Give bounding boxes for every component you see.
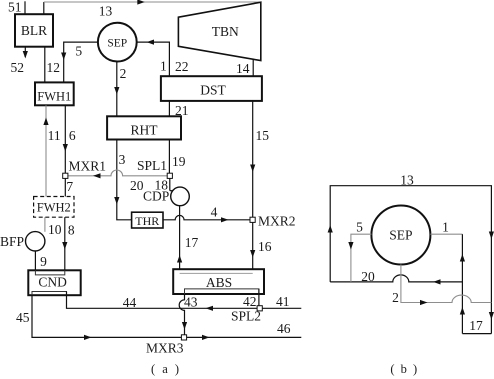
svg-text:20: 20 [130,178,144,193]
pump CDP [171,187,190,206]
svg-text:2: 2 [392,290,399,305]
heater FWH1 [35,82,74,105]
wire 17 (ABS to CDP, arrow up) [177,206,182,274]
CND inner top tube [35,270,64,275]
svg-text:51: 51 [8,0,22,15]
boiler BLR [15,14,53,47]
svg-text:MXR1: MXR1 [69,159,107,174]
node MXR1 [63,173,68,178]
wire 19 (RHT to SPL1) [168,140,170,174]
wire 41 (inlet to SPL2) [262,307,301,309]
svg-text:SPL2: SPL2 [231,309,261,324]
svg-text:13: 13 [99,4,113,19]
svg-text:2: 2 [120,66,127,81]
svg-text:SEP: SEP [389,228,412,243]
svg-text:17: 17 [185,235,199,250]
svg-text:SEP: SEP [107,37,127,49]
svg-text:MXR2: MXR2 [258,214,296,229]
wire 3 (RHT down to THR, arrow down) [114,140,131,220]
svg-text:16: 16 [258,239,272,254]
wire 7 (MXR1 to FWH2) [64,178,66,196]
svg-text:10: 10 [48,222,62,237]
svg-text:CDP: CDP [143,189,169,204]
svg-text:20: 20 [361,269,375,284]
svg-text:12: 12 [47,60,61,75]
wire 20b (hop over wire2, arrow left) [330,275,462,285]
svg-text:44: 44 [123,295,137,310]
node SPL2 [257,306,262,311]
wire 14 (TBN to DST) [252,59,254,76]
svg-text:13: 13 [400,173,414,188]
svg-text:FWH1: FWH1 [37,90,71,104]
wire 15 (DST to MXR2, arrow down) [250,101,255,218]
svg-text:ABS: ABS [206,275,232,290]
wire 4 (THR to MXR2, hop over CDP line, arrow right) [163,215,250,222]
svg-text:SPL1: SPL1 [137,158,167,173]
wire 52 (BLR blowdown, arrow down) [23,47,28,59]
throttle THR [132,212,163,228]
svg-text:7: 7 [66,179,73,194]
heater FWH2 (dashed) [34,197,74,218]
svg-text:19: 19 [172,154,186,169]
deaerator DST [161,76,262,101]
wire 2b (grey, SEP bottom, hop over riser, arrows) [401,265,492,306]
svg-text:FWH2: FWH2 [37,201,71,215]
node MXR3 [181,335,186,340]
svg-text:MXR3: MXR3 [146,341,184,356]
condenser CND [28,270,80,295]
wire 6 (FWH1 to MXR1, arrow down) [63,105,68,173]
ABS inner bottom tube [185,289,259,294]
wire 5 (SEP to FWH1, arrow down) [61,42,98,82]
reheater RHT [107,116,181,139]
svg-text:CND: CND [38,274,67,289]
wire 10 (FWH2 to BFP, grey) [44,217,46,232]
wire 9 (BFP to CND) [34,251,36,275]
svg-text:BLR: BLR [21,23,47,38]
wire 51 (inlet to BLR) [24,1,26,14]
svg-text:41: 41 [276,294,290,309]
wire 1b vertical / 17 riser (arrows up) [460,234,465,333]
svg-text:14: 14 [236,61,250,76]
wire 1 (to SEP right, arrow left) [137,40,170,77]
svg-text:BFP: BFP [0,234,24,249]
svg-text:22: 22 [175,59,189,74]
svg-text:43: 43 [184,295,198,310]
svg-text:RHT: RHT [131,123,159,138]
svg-text:52: 52 [11,60,25,75]
svg-text:42: 42 [243,294,257,309]
wire 18 (SPL1 to CDP) [170,178,174,190]
absorber ABS [173,269,264,294]
node MXR2 [250,217,255,222]
svg-text:9: 9 [40,254,47,269]
wire 43 (ABS to MXR3, hop over wire44, arrow down) [179,294,187,335]
wire 44 (SPL2 to CND, arrow left) [67,292,258,311]
svg-text:1: 1 [442,220,449,235]
svg-text:( b ): ( b ) [390,362,418,376]
CND inner bottom tube [32,292,67,296]
separator SEP (part a) [98,23,137,62]
wire 1b (grey horizontal) [430,233,462,235]
wire 2 (SEP to RHT, arrow down) [114,62,119,117]
wire 13b loop (top and sides) [328,186,494,334]
wire 13 (BLR top to TBN, grey with black arrow) [44,0,261,14]
svg-text:46: 46 [277,321,291,336]
svg-text:6: 6 [69,128,76,143]
svg-text:1: 1 [160,59,167,74]
svg-text:( a ): ( a ) [151,362,181,376]
wire MXR1-SPL1 (grey, hop over wire3, arrow left) [68,170,167,178]
wire 12 (BLR to FWH1) [44,47,46,83]
wire 16 (MXR2 to ABS, arrow down) [250,222,255,273]
svg-text:15: 15 [256,128,270,143]
separator SEP (part b) [371,206,430,265]
svg-text:5: 5 [75,44,82,59]
wire 42 (ABS to SPL2) [258,289,260,306]
wire 17b (bottom segment) [462,333,491,335]
svg-text:11: 11 [48,128,61,143]
turbine TBN [178,2,260,60]
svg-text:4: 4 [211,205,218,220]
svg-text:DST: DST [200,82,226,97]
pump BFP [26,232,45,251]
svg-text:8: 8 [68,223,75,238]
svg-text:THR: THR [135,214,159,228]
svg-text:5: 5 [356,220,363,235]
wire 21 (DST to RHT) [168,101,170,116]
svg-text:3: 3 [119,152,126,167]
wire 46 (MXR3 outlet, arrow right) [187,335,302,340]
svg-text:TBN: TBN [212,24,239,39]
node SPL1 [167,173,172,178]
wire 8 (FWH2 to CND, arrow down) [62,217,67,275]
svg-text:17: 17 [469,318,483,333]
svg-text:45: 45 [16,310,30,325]
ABS inner tube (grey) [180,272,253,274]
wire 11 (grey, arrow up into FWH1) [43,105,48,196]
wire 5b (grey, arrow down) [348,234,371,282]
wire 45 (CND to MXR3, arrow right) [32,295,181,340]
